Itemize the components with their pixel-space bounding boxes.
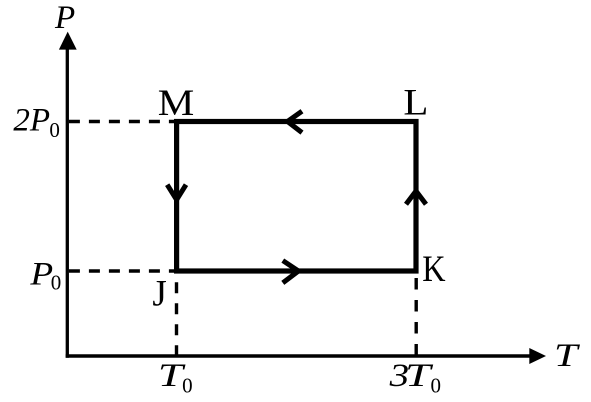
svg-text:0: 0 bbox=[182, 373, 193, 397]
svg-text:P: P bbox=[29, 256, 53, 292]
svg-text:L: L bbox=[403, 83, 428, 124]
svg-text:J: J bbox=[152, 273, 166, 314]
svg-text:M: M bbox=[158, 83, 195, 124]
svg-text:K: K bbox=[422, 249, 446, 290]
svg-text:2P: 2P bbox=[13, 103, 50, 139]
svg-text:0: 0 bbox=[49, 118, 60, 142]
svg-text:T: T bbox=[554, 338, 581, 374]
svg-text:P: P bbox=[54, 0, 75, 36]
svg-text:0: 0 bbox=[431, 373, 442, 397]
svg-text:0: 0 bbox=[51, 270, 62, 294]
